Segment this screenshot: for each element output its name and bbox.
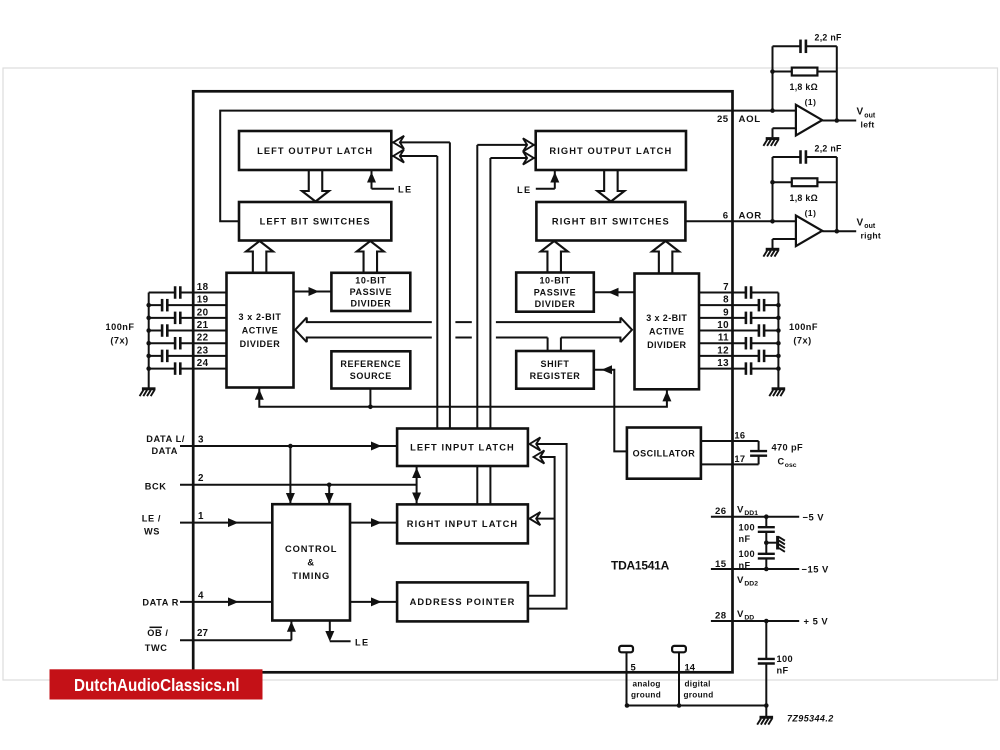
svg-text:TWC: TWC [145, 643, 168, 653]
svg-text:DATA: DATA [151, 446, 178, 456]
svg-text:&: & [307, 558, 315, 568]
svg-text:TDA1541A: TDA1541A [611, 559, 670, 573]
svg-text:V: V [857, 217, 864, 228]
wire left active to passive divider [294, 287, 332, 296]
svg-text:13: 13 [717, 358, 729, 369]
svg-text:TIMING: TIMING [292, 571, 330, 581]
svg-text:22: 22 [197, 333, 209, 344]
svg-text:SHIFT: SHIFT [541, 359, 570, 369]
wire LE output of control timing [325, 621, 350, 642]
svg-text:OSCILLATOR: OSCILLATOR [633, 448, 696, 458]
svg-text:16: 16 [734, 431, 745, 441]
svg-text:LEFT OUTPUT LATCH: LEFT OUTPUT LATCH [257, 146, 373, 156]
svg-text:DIVIDER: DIVIDER [240, 339, 281, 349]
svg-text:8: 8 [723, 295, 729, 306]
pin 2 wire BCK [180, 483, 417, 504]
pin 15 wire VDD2 -15V [711, 567, 799, 572]
arrow left passive divider to left bit switches [357, 241, 384, 274]
capacitor 100nF supply [758, 621, 793, 706]
pin 4 wire DATA R [180, 597, 272, 606]
label 470 pF [772, 443, 804, 453]
block reference source [331, 351, 410, 388]
wire bus to left output latch b [392, 149, 438, 162]
arrow left output latch to left bit switches [302, 170, 329, 202]
svg-text:7Z95344.2: 7Z95344.2 [787, 714, 834, 724]
svg-text:nF: nF [739, 534, 751, 544]
svg-text:1: 1 [198, 511, 204, 522]
ground mid decoupling [764, 536, 785, 552]
pin 14 digital ground [672, 646, 713, 706]
bus stub into shift register [548, 338, 561, 352]
svg-text:6: 6 [723, 211, 729, 222]
wire oscillator to shift register [594, 365, 627, 451]
wire bus to right output latch a [477, 138, 535, 151]
svg-text:100nF: 100nF [105, 322, 134, 332]
block right 10-bit passive divider [516, 273, 594, 312]
block left 10-bit passive divider [331, 273, 410, 311]
svg-text:AOL: AOL [739, 114, 761, 125]
block left output latch [239, 131, 391, 170]
wire data bus right-channel vertical 2 [489, 158, 491, 504]
junction dots AOR [770, 180, 839, 234]
svg-text:BCK: BCK [145, 481, 167, 491]
svg-text:ACTIVE: ACTIVE [242, 325, 279, 335]
block shift register [516, 351, 594, 389]
label pin 17 [734, 454, 745, 464]
ground right capacitor bank [769, 389, 785, 396]
pin 27 wire OB/TWC [180, 621, 296, 640]
svg-text:1,8 kΩ: 1,8 kΩ [790, 193, 818, 203]
svg-text:DIVIDER: DIVIDER [647, 340, 686, 350]
bus arrow between active dividers [295, 317, 632, 342]
svg-text:analog: analog [633, 679, 661, 688]
junction dots AOL [770, 69, 839, 123]
svg-text:17: 17 [734, 454, 745, 464]
wire control to address pointer [350, 597, 397, 606]
arrow right output latch to right bit switches [597, 170, 624, 202]
svg-text:10-BIT: 10-BIT [355, 276, 386, 286]
chip boundary TDA1541A [193, 91, 732, 672]
svg-text:1,8 kΩ: 1,8 kΩ [790, 82, 818, 92]
svg-text:(7x): (7x) [110, 336, 128, 346]
svg-text:100: 100 [777, 654, 794, 664]
label C osc [778, 456, 797, 469]
wire control to right input latch [350, 518, 397, 527]
op-amp AOR plus input and ground [763, 239, 796, 257]
LE tap left output latch [367, 171, 413, 195]
op-amp AOR output wire [822, 230, 856, 232]
label TDA1541A [611, 559, 670, 573]
svg-text:100: 100 [739, 522, 756, 532]
label 2,2 nF AOR [815, 143, 843, 153]
svg-text:−5 V: −5 V [803, 511, 825, 522]
LE tap right output latch [517, 171, 559, 195]
svg-text:28: 28 [715, 611, 727, 622]
svg-text:out: out [864, 112, 876, 119]
op-amp AOR [796, 208, 822, 246]
op-amp AOL [796, 97, 822, 135]
block right bit switches [536, 202, 685, 241]
wire bus to left output latch a [392, 136, 450, 149]
svg-text:LE: LE [355, 637, 370, 647]
svg-text:V: V [737, 505, 744, 516]
label 1,8 kOhm AOL [790, 82, 818, 92]
arrow right passive divider to right bit switches [541, 241, 568, 274]
label 100nF 7x left [105, 322, 134, 346]
pin 1 wire LE/WS [180, 518, 272, 527]
block right 3x2-bit active divider [635, 274, 700, 390]
label 1,8 kOhm AOR [790, 193, 818, 203]
svg-text:100: 100 [739, 549, 756, 559]
svg-text:21: 21 [197, 320, 209, 331]
label 7Z95344.2 [787, 714, 834, 724]
block right output latch [536, 131, 686, 170]
svg-text:27: 27 [197, 628, 208, 639]
svg-text:18: 18 [197, 282, 209, 293]
svg-text:left: left [861, 120, 875, 130]
ground bus bottom [625, 703, 773, 724]
pin 16 wire [701, 440, 759, 442]
svg-text:out: out [864, 223, 876, 230]
svg-text:−15 V: −15 V [802, 564, 830, 575]
wire bus to right output latch b [490, 151, 535, 164]
svg-text:ground: ground [684, 690, 714, 699]
svg-text:5: 5 [631, 661, 636, 672]
wire right active to passive divider [594, 288, 635, 297]
resistor 1,8 kOhm AOR [773, 178, 837, 186]
svg-text:23: 23 [197, 345, 209, 356]
resistor 1,8 kOhm AOL [773, 68, 837, 76]
label 100nF 7x right [789, 322, 818, 346]
svg-text:REGISTER: REGISTER [530, 371, 581, 381]
DutchAudioClassics.nl logo [50, 669, 263, 699]
feedback right vertical AOR [836, 157, 838, 231]
svg-text:ACTIVE: ACTIVE [649, 327, 684, 337]
svg-text:OB /: OB / [147, 628, 168, 638]
block right input latch [397, 504, 528, 543]
svg-text:ADDRESS POINTER: ADDRESS POINTER [410, 597, 516, 607]
label DATA L / DATA pin 3 [146, 434, 204, 456]
block address pointer [397, 582, 528, 621]
label V out right [857, 217, 882, 240]
svg-text:C: C [778, 456, 785, 466]
svg-text:9: 9 [723, 307, 729, 318]
labels pin 28 [715, 609, 828, 627]
pin 5 analog ground [619, 646, 661, 706]
label pin 6 AOR [723, 211, 762, 222]
svg-text:PASSIVE: PASSIVE [350, 287, 393, 297]
svg-text:DD1: DD1 [744, 510, 758, 517]
svg-text:RIGHT OUTPUT LATCH: RIGHT OUTPUT LATCH [549, 146, 672, 156]
svg-text:LE: LE [398, 184, 413, 194]
feedback network AOL: capacitor 2.2nF [773, 40, 837, 111]
svg-text:WS: WS [144, 526, 160, 536]
block oscillator [627, 428, 701, 479]
wire DATA L to control timing [286, 446, 295, 504]
svg-text:7: 7 [723, 282, 729, 293]
svg-text:100nF: 100nF [789, 322, 818, 332]
svg-text:DATA R: DATA R [142, 598, 179, 608]
svg-text:19: 19 [197, 295, 209, 306]
svg-text:V: V [857, 107, 864, 118]
label 2,2 nF AOL [815, 33, 843, 43]
svg-text:nF: nF [777, 665, 789, 675]
svg-text:25: 25 [717, 114, 729, 125]
wire address pointer feedback outer [528, 437, 566, 608]
svg-text:2: 2 [198, 473, 204, 484]
wire left bit switches to pin 25 AOL [220, 111, 796, 222]
pin 17 wire [701, 463, 759, 465]
svg-text:470 pF: 470 pF [772, 443, 804, 453]
wire left-right input latch exchange [412, 466, 421, 504]
block left bit switches [239, 202, 391, 241]
label LE bottom [355, 637, 370, 647]
feedback network AOR: capacitor 2.2nF [773, 150, 837, 221]
svg-text:right: right [861, 230, 882, 240]
svg-text:11: 11 [718, 333, 729, 344]
pin 3 wire DATA L [180, 442, 397, 451]
label OB / TWC pin 27 [145, 627, 209, 653]
block control and timing [272, 504, 350, 620]
svg-text:V: V [737, 575, 744, 586]
pin 28 wire VDD +5V [711, 619, 799, 624]
svg-text:15: 15 [715, 559, 727, 570]
svg-text:4: 4 [198, 591, 204, 602]
svg-text:3 x 2-BIT: 3 x 2-BIT [646, 313, 687, 323]
wire branch to right input latch [530, 512, 555, 525]
svg-text:osc: osc [785, 462, 797, 469]
svg-text:AOR: AOR [739, 211, 762, 222]
svg-text:DIVIDER: DIVIDER [535, 299, 576, 309]
wire reference source distribution [255, 388, 672, 409]
arrow right active divider to right bit switches [652, 241, 679, 274]
feedback right vertical AOL [836, 46, 838, 120]
svg-text:26: 26 [715, 506, 726, 517]
svg-text:REFERENCE: REFERENCE [340, 359, 401, 369]
labels pin 26 [715, 505, 824, 523]
op-amp AOL output wire [822, 120, 856, 122]
svg-text:digital: digital [685, 679, 711, 688]
label V out left [857, 107, 876, 130]
wire address pointer feedback inner [528, 450, 554, 595]
svg-text:24: 24 [197, 358, 209, 369]
labels pin 15 [715, 559, 829, 587]
block left 3x2-bit active divider [227, 273, 294, 388]
svg-text:10-BIT: 10-BIT [539, 276, 570, 286]
pins 7-13 wires and capacitors 100nF [699, 282, 781, 388]
svg-text:RIGHT INPUT LATCH: RIGHT INPUT LATCH [407, 519, 519, 529]
svg-text:3: 3 [198, 434, 204, 445]
svg-text:SOURCE: SOURCE [350, 371, 392, 381]
label DATA R pin 4 [142, 591, 204, 608]
block left input latch [397, 429, 528, 467]
svg-text:ground: ground [631, 690, 661, 699]
svg-text:LE /: LE / [142, 513, 161, 523]
capacitor 100nF upper [739, 517, 775, 544]
label pin 16 [734, 431, 745, 441]
svg-text:20: 20 [197, 307, 209, 318]
svg-text:LEFT BIT SWITCHES: LEFT BIT SWITCHES [260, 217, 371, 227]
svg-text:DATA L/: DATA L/ [146, 434, 185, 444]
pins 18-24 wires and capacitors 100nF [146, 282, 226, 388]
svg-text:(7x): (7x) [793, 336, 811, 346]
wire right bit switches to pin 6 AOR [685, 220, 796, 222]
wire data bus left-channel vertical 1 [436, 156, 438, 429]
svg-text:(1): (1) [805, 208, 817, 218]
svg-text:2,2 nF: 2,2 nF [815, 33, 843, 43]
svg-text:V: V [737, 609, 744, 620]
svg-text:RIGHT BIT SWITCHES: RIGHT BIT SWITCHES [552, 217, 670, 227]
svg-text:14: 14 [685, 661, 696, 672]
svg-text:LEFT INPUT LATCH: LEFT INPUT LATCH [410, 443, 515, 453]
svg-text:CONTROL: CONTROL [285, 544, 337, 554]
svg-text:(1): (1) [805, 97, 817, 107]
svg-text:DutchAudioClassics.nl: DutchAudioClassics.nl [74, 675, 240, 695]
svg-text:3 x 2-BIT: 3 x 2-BIT [239, 312, 282, 322]
pin 26 wire VDD1 -5V [711, 514, 799, 519]
ground left capacitor bank [140, 389, 156, 396]
svg-text:DD2: DD2 [744, 580, 758, 587]
wire data bus right-channel vertical 1 [476, 145, 478, 505]
label BCK pin 2 [145, 473, 204, 491]
svg-text:LE: LE [517, 185, 532, 195]
capacitor C-osc 470pF [750, 441, 767, 464]
svg-text:2,2 nF: 2,2 nF [815, 143, 843, 153]
svg-text:10: 10 [717, 320, 729, 331]
arrow left active divider to left bit switches [246, 241, 273, 274]
label pin 25 AOL [717, 114, 761, 125]
wire data bus left-channel vertical 2 [449, 142, 451, 428]
svg-text:DIVIDER: DIVIDER [350, 299, 391, 309]
svg-text:12: 12 [717, 345, 729, 356]
svg-text:+ 5 V: + 5 V [804, 616, 829, 627]
svg-text:DD: DD [744, 614, 754, 621]
capacitor 100nF lower [739, 543, 775, 571]
label LE / WS pin 1 [142, 511, 204, 536]
svg-text:PASSIVE: PASSIVE [534, 287, 577, 297]
op-amp AOL plus input and ground [763, 128, 796, 146]
